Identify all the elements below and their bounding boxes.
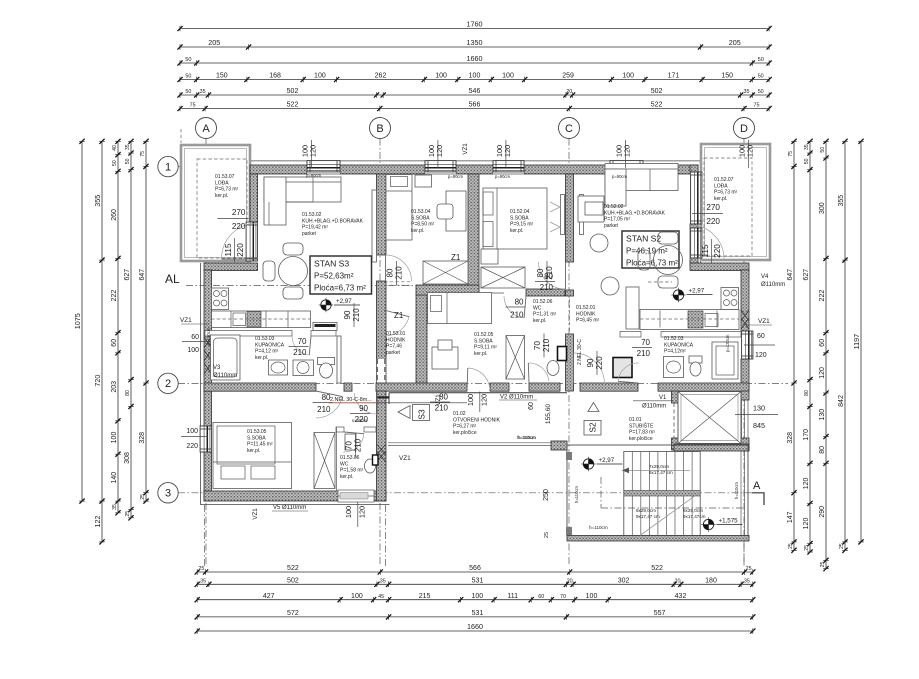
grid axis C circle (559, 118, 580, 139)
svg-text:120: 120 (358, 506, 367, 518)
wall axis2 seg1 (204, 383, 316, 391)
grid axis 2 centerline (178, 382, 788, 384)
svg-text:S2: S2 (588, 422, 598, 433)
marker S3 box (398, 405, 430, 421)
svg-text:ker.pl.: ker.pl. (340, 474, 353, 480)
door arc b 90 (354, 391, 377, 414)
svg-text:AL: AL (165, 272, 180, 286)
chevron 52-04 (550, 202, 560, 232)
radiator B wall (372, 190, 377, 262)
svg-text:355: 355 (93, 195, 102, 207)
svg-text:40: 40 (112, 145, 118, 151)
svg-text:50: 50 (820, 147, 826, 153)
loggia S3 dims 270-220 (218, 208, 249, 231)
stan S3 title box (310, 256, 372, 294)
svg-text:3: 3 (165, 488, 171, 500)
door arc B wall (380, 310, 410, 336)
svg-text:328: 328 (787, 432, 794, 444)
dimension line top 50-1660-50 (177, 54, 771, 66)
svg-text:130: 130 (753, 404, 765, 413)
label v3 (213, 365, 237, 379)
svg-text:P=1,31 m²: P=1,31 m² (533, 312, 557, 318)
radiator C wall left (561, 195, 565, 235)
dashed beam top-right (648, 281, 672, 283)
door jambs C wall opening (566, 296, 573, 334)
door dim 90-220 s2 (586, 351, 604, 375)
door arc hodnik53 up (386, 255, 412, 281)
svg-text:115: 115 (701, 244, 710, 257)
room label otvoreni hodnik (453, 411, 501, 436)
washbasin S3 (269, 360, 288, 375)
B wall dashed opening lower (377, 359, 386, 383)
dimension line top 502-546-502 (177, 88, 771, 98)
svg-text:20: 20 (675, 579, 681, 585)
svg-text:50: 50 (185, 89, 191, 95)
svg-text:20: 20 (566, 89, 572, 95)
window top w4 (610, 161, 643, 175)
loggia S3 vdims 115-220 (224, 238, 245, 262)
svg-text:2.NEL 30-C: 2.NEL 30-C (577, 339, 583, 365)
window dim pair 3 (495, 140, 512, 168)
loggia S3 inner line (185, 149, 247, 258)
wall top exterior seg4 (524, 165, 610, 174)
svg-text:150: 150 (216, 73, 228, 80)
loggia S3 dashed platform (197, 159, 247, 258)
door dim 80-210 hodnik52 (430, 393, 450, 413)
svg-text:HODNIK: HODNIK (576, 311, 596, 317)
svg-text:502: 502 (287, 578, 299, 585)
svg-text:220: 220 (595, 356, 604, 370)
svg-text:01.01: 01.01 (629, 417, 642, 423)
svg-text:Z1: Z1 (394, 311, 404, 320)
door arc soba5305 (316, 391, 342, 418)
label 60-100 left (182, 334, 210, 354)
svg-text:h=110cm: h=110cm (734, 481, 739, 499)
svg-text:50: 50 (804, 158, 810, 164)
wall elevator right top stub (741, 391, 749, 400)
svg-text:150: 150 (721, 73, 733, 80)
svg-text:WC: WC (533, 305, 542, 311)
svg-text:100: 100 (111, 432, 118, 444)
bottom dim 427 chain (195, 593, 756, 603)
svg-text:VZ1: VZ1 (252, 508, 259, 520)
wall bottom seg2 (372, 491, 386, 501)
svg-text:A: A (753, 480, 761, 492)
dashed beam Z1 (384, 282, 412, 285)
svg-text:522: 522 (287, 102, 299, 109)
loggia S2 outer box (701, 144, 770, 260)
svg-text:KUPAONICA: KUPAONICA (255, 342, 285, 348)
svg-text:V3: V3 (213, 365, 221, 371)
kitchen stove S2 (721, 288, 739, 310)
svg-text:ker.pl.: ker.pl. (411, 228, 424, 234)
svg-text:25: 25 (746, 566, 752, 572)
wall left upper (250, 174, 258, 222)
level mark S2 +2.97 (671, 288, 712, 303)
level mark stairs +1.575 (701, 517, 742, 531)
left dim 1075 (73, 139, 85, 504)
svg-text:ker.pl.: ker.pl. (533, 318, 546, 324)
wall stub right (690, 263, 749, 271)
grid axis 1 centerline (178, 166, 772, 168)
room label loggia S3 (215, 174, 239, 199)
wall axis2 seg2 (344, 383, 352, 391)
wall bathroom S3 top thin (205, 331, 336, 337)
room label hodnik 52-01 (576, 305, 600, 324)
svg-text:70: 70 (345, 441, 354, 450)
svg-text:VZ1: VZ1 (462, 143, 469, 155)
door arc balcony S2 (690, 225, 724, 259)
svg-text:155,60: 155,60 (545, 404, 552, 425)
svg-text:531: 531 (472, 578, 484, 585)
svg-text:35: 35 (112, 504, 118, 510)
svg-text:ker.pl.: ker.pl. (510, 228, 523, 234)
wall axis C mid (566, 290, 574, 296)
svg-text:502: 502 (651, 88, 663, 95)
svg-text:01.53.02: 01.53.02 (302, 212, 322, 218)
right dim 1197 (852, 139, 864, 545)
svg-text:100: 100 (314, 73, 326, 80)
svg-text:Ø110mm: Ø110mm (761, 282, 785, 288)
svg-text:220: 220 (232, 222, 246, 231)
svg-text:100: 100 (502, 73, 514, 80)
shaft marks right wall (741, 310, 749, 329)
wall open-corridor stub (551, 441, 567, 450)
svg-text:220: 220 (186, 443, 198, 450)
svg-text:572: 572 (287, 610, 299, 617)
black shaft box hodnik52 (613, 358, 632, 378)
room label kupaonica 53-03 (255, 336, 285, 361)
label 60-120 right (744, 333, 775, 359)
svg-text:LOĐA: LOĐA (714, 183, 728, 189)
bottom dim 502-531-302-180 (195, 578, 756, 588)
door arc s2 living (574, 353, 605, 384)
room label ssoba 52-04 (510, 209, 534, 234)
svg-text:P=6,73 m²: P=6,73 m² (714, 190, 738, 196)
svg-text:270: 270 (706, 203, 720, 212)
dining table S2 (590, 232, 683, 295)
loggia S2 inner line (705, 148, 767, 257)
svg-text:90: 90 (586, 358, 595, 367)
room label stubiste (629, 417, 655, 442)
shower 52-03 (712, 342, 738, 379)
right dim 300-222 chain (819, 139, 829, 572)
svg-text:80: 80 (125, 390, 131, 396)
svg-text:Ø110mm: Ø110mm (213, 373, 237, 379)
balcony door right (690, 228, 702, 258)
svg-text:70: 70 (298, 337, 307, 346)
svg-text:WC: WC (340, 461, 349, 467)
svg-text:p=90cm: p=90cm (495, 174, 511, 179)
svg-text:9x17,47 cm: 9x17,47 cm (636, 514, 660, 519)
wall elevator bottom strip (674, 444, 749, 451)
svg-text:parket: parket (386, 350, 401, 356)
facade line bottom (200, 504, 389, 506)
door dim 80-210 ssoba5205 (506, 298, 526, 320)
wc 53-06 fixtures (345, 434, 378, 473)
svg-text:2: 2 (165, 378, 171, 390)
svg-text:01.53.01: 01.53.01 (386, 331, 406, 337)
grid axis A circle (196, 118, 217, 139)
svg-text:A: A (202, 123, 210, 135)
svg-text:215: 215 (419, 593, 431, 600)
window dim pair 2 (427, 140, 444, 168)
room label kuhinja S3 (302, 212, 364, 237)
washbasin 52-03 (664, 357, 684, 378)
svg-text:170: 170 (803, 429, 810, 441)
svg-text:557: 557 (654, 610, 666, 617)
svg-text:LOĐA: LOĐA (215, 180, 229, 186)
svg-text:p=90cm: p=90cm (448, 174, 464, 179)
bottom dim 25-522-566-522-25 (195, 565, 756, 575)
svg-text:+2,97: +2,97 (599, 457, 615, 464)
svg-text:260: 260 (111, 209, 118, 221)
svg-text:220: 220 (713, 244, 722, 258)
label v5 (272, 505, 308, 511)
wall top exterior seg2 (340, 165, 425, 174)
wall top exterior seg3 (456, 165, 493, 174)
svg-text:522: 522 (287, 565, 299, 572)
elevator shaft box (678, 392, 741, 444)
door arc wc5206 (528, 363, 549, 383)
svg-text:25: 25 (820, 562, 826, 568)
door dim 80-210 hodnik53 (386, 261, 404, 285)
ref line bottom WC (385, 505, 387, 566)
svg-text:50: 50 (758, 89, 764, 95)
svg-text:100: 100 (351, 593, 363, 600)
svg-text:427: 427 (263, 593, 275, 600)
label v2 (499, 395, 537, 401)
svg-text:P=11,45 m²: P=11,45 m² (247, 442, 273, 448)
svg-text:210: 210 (542, 338, 551, 352)
svg-text:B: B (376, 123, 383, 135)
wall stub left (204, 263, 258, 271)
door dim 80-210 wc5206h (535, 272, 555, 292)
svg-text:p=90cm: p=90cm (612, 174, 628, 179)
svg-text:60: 60 (819, 339, 826, 347)
svg-text:HODNIK: HODNIK (386, 337, 406, 343)
wall axis B lower (377, 281, 387, 383)
door threshold bottom WC (342, 492, 372, 501)
section mark A (752, 480, 764, 505)
bed 52-05 (428, 293, 492, 324)
wall axis2 seg4 (490, 383, 509, 391)
svg-text:20: 20 (567, 579, 573, 585)
wall bathroom S3 right thin (337, 336, 341, 383)
svg-text:205: 205 (729, 38, 741, 47)
bed 53-05 (213, 423, 292, 489)
wardrobe Z1 52-04 (481, 267, 525, 288)
label v1 (633, 395, 672, 410)
sideboard S3 (313, 323, 337, 331)
vz1 left leader (181, 323, 209, 325)
svg-text:ker.pločice: ker.pločice (629, 436, 653, 442)
svg-text:01.53.07: 01.53.07 (215, 174, 235, 180)
svg-text:70: 70 (641, 338, 650, 347)
svg-text:120: 120 (622, 145, 631, 157)
svg-text:290: 290 (819, 506, 826, 518)
svg-text:01.52.01: 01.52.01 (576, 305, 596, 311)
svg-text:50: 50 (758, 74, 764, 80)
wall top exterior seg1 (250, 165, 307, 174)
svg-text:D: D (740, 123, 748, 135)
svg-text:p=120cm: p=120cm (206, 327, 211, 345)
bench 52-04 (481, 249, 498, 264)
svg-text:35: 35 (744, 579, 750, 585)
svg-text:ker.pl.: ker.pl. (215, 193, 228, 199)
svg-text:120: 120 (819, 367, 826, 379)
wall partition S.SOBA top thin (479, 292, 504, 294)
svg-text:120: 120 (803, 518, 810, 530)
svg-text:90: 90 (359, 404, 368, 413)
room label kuhinja S2 (604, 204, 666, 229)
svg-text:35: 35 (125, 144, 131, 150)
svg-text:01.52.07: 01.52.07 (714, 177, 734, 183)
svg-text:220: 220 (706, 217, 720, 226)
wall right upper seg1 (690, 165, 698, 172)
dimension line top detail chain (177, 73, 771, 83)
svg-text:VZ1: VZ1 (435, 394, 442, 406)
wall axis2 seg3 (376, 383, 467, 391)
svg-text:P=17,05 m²: P=17,05 m² (604, 217, 630, 223)
svg-text:35: 35 (200, 89, 206, 95)
wall right upper seg3 (690, 258, 698, 263)
svg-text:Ø110mm: Ø110mm (642, 404, 666, 410)
door arc balcony S3 (222, 223, 258, 259)
door dim 70-210 wc5206 (533, 334, 551, 358)
wall axis C lower (566, 334, 574, 391)
svg-text:842: 842 (838, 395, 845, 407)
svg-text:01.52.05: 01.52.05 (474, 332, 494, 338)
svg-text:100: 100 (586, 593, 598, 600)
grid axis 3 centerline (178, 492, 756, 494)
svg-text:01.52.03: 01.52.03 (664, 336, 684, 342)
grid axis 3 circle (158, 483, 178, 503)
window left lower (200, 426, 211, 452)
svg-text:50: 50 (112, 160, 118, 166)
svg-text:220: 220 (236, 243, 245, 257)
wall WC-S3 right (377, 391, 387, 501)
svg-text:210: 210 (293, 348, 307, 357)
svg-text:627: 627 (803, 269, 810, 281)
wall axis B upper (377, 174, 387, 255)
wall top exterior seg5 (643, 165, 698, 174)
red annotation NEL (329, 397, 468, 403)
svg-text:75: 75 (190, 103, 196, 109)
svg-text:p=120cm: p=120cm (725, 334, 730, 352)
svg-text:75: 75 (754, 103, 760, 109)
svg-text:ker.pl.: ker.pl. (247, 448, 260, 454)
svg-text:01.52.02: 01.52.02 (604, 204, 624, 210)
wall bottom seg1 (204, 491, 342, 501)
svg-text:35: 35 (744, 89, 750, 95)
wall bathroom S2 top thin (620, 332, 741, 338)
wall Z1 jog horizontal (416, 285, 479, 296)
svg-text:647: 647 (139, 269, 146, 281)
stair left edge blocks (566, 452, 572, 535)
marker S2 box (584, 403, 601, 436)
label 100-220 left (181, 428, 208, 450)
left dim 627-308 (124, 139, 134, 521)
stair treads (624, 452, 700, 536)
svg-text:250: 250 (543, 489, 550, 501)
svg-text:P=1,58 m²: P=1,58 m² (340, 468, 364, 474)
door dim 90-220 b (350, 404, 370, 424)
window right mid (741, 331, 753, 359)
svg-text:203: 203 (111, 381, 118, 393)
svg-text:60: 60 (528, 402, 535, 410)
left dim 75-647-328 (139, 139, 149, 504)
svg-text:1660: 1660 (467, 54, 483, 63)
kitchen island S2 (626, 287, 639, 329)
window right upper (690, 172, 702, 224)
toilet S3 (318, 358, 335, 379)
wall elevator left top stub (672, 391, 680, 403)
shaft marks left wall (204, 337, 212, 374)
svg-text:+1,575: +1,575 (719, 518, 739, 525)
svg-text:V4: V4 (761, 274, 769, 280)
svg-text:80: 80 (515, 298, 524, 307)
svg-text:90: 90 (343, 310, 352, 319)
svg-text:STUBIŠTE: STUBIŠTE (629, 422, 654, 429)
svg-text:S.SOBA: S.SOBA (247, 435, 266, 441)
dimension line top 205-1350-205 (177, 38, 771, 50)
svg-text:50: 50 (125, 158, 131, 164)
grid axis D circle (734, 118, 755, 139)
svg-text:STAN S3: STAN S3 (314, 259, 349, 269)
svg-text:25: 25 (125, 511, 131, 517)
svg-text:100: 100 (469, 73, 481, 80)
svg-text:328: 328 (139, 432, 146, 444)
kitchen stove S3 (212, 288, 229, 310)
svg-text:P=6,27 m²: P=6,27 m² (453, 424, 477, 430)
svg-text:168: 168 (269, 73, 281, 80)
svg-text:P=6,73 m²: P=6,73 m² (215, 187, 239, 193)
svg-text:parket: parket (302, 231, 317, 237)
bottom dim 572-531-557 (195, 610, 756, 620)
svg-text:130: 130 (819, 409, 826, 421)
grid axis B centerline (379, 139, 381, 567)
nightstand 53-04 (415, 175, 432, 187)
svg-text:80: 80 (544, 272, 553, 281)
room label hodnik 53-01 (386, 331, 406, 356)
svg-text:222: 222 (819, 290, 826, 302)
svg-text:2.NEL 30-C-8m...: 2.NEL 30-C-8m... (330, 397, 372, 403)
svg-text:P=4,12m²: P=4,12m² (664, 349, 686, 355)
bottom dim 1660 (195, 622, 756, 634)
svg-text:1: 1 (165, 161, 171, 173)
grid axis C centerline (568, 139, 570, 567)
svg-text:100: 100 (622, 73, 634, 80)
desk S2 living (578, 196, 604, 222)
room label wc 53-06 (340, 455, 364, 480)
right dim 355-842 (838, 139, 848, 553)
svg-text:180: 180 (705, 578, 717, 585)
svg-text:P=46,19 m²: P=46,19 m² (626, 247, 668, 256)
door arc 52-04 at C (539, 262, 566, 289)
dimension line top 1760 (177, 20, 771, 32)
elevator door dashed left (674, 403, 679, 438)
svg-text:01.53.06: 01.53.06 (340, 455, 360, 461)
wardrobe 53-05 (314, 433, 335, 489)
window dim pair 5 (738, 140, 755, 168)
wardrobe 52-05 (506, 336, 525, 380)
loggia S2 vdims 115-220 (701, 239, 722, 263)
stair area outline (567, 445, 748, 536)
svg-text:25: 25 (804, 545, 810, 551)
svg-text:502: 502 (287, 88, 299, 95)
svg-text:522: 522 (651, 102, 663, 109)
